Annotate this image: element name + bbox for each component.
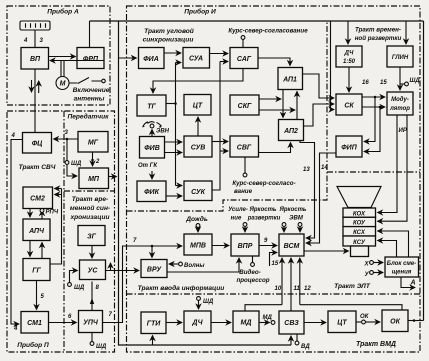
svg-text:СУК: СУК <box>191 189 206 196</box>
svg-text:Тракт СВЧ: Тракт СВЧ <box>19 164 56 171</box>
node RPCh test point <box>40 209 44 213</box>
svg-text:МГ: МГ <box>88 140 99 147</box>
CRT neck <box>351 246 369 257</box>
svg-text:СВЗ: СВЗ <box>284 320 299 327</box>
svg-text:СК: СК <box>344 103 354 110</box>
svg-text:ВП: ВП <box>30 56 41 63</box>
block VPR <box>231 234 259 256</box>
wire trunk into FIA <box>119 57 137 59</box>
wire modulator to KOX IR <box>378 115 398 213</box>
wire US to VRU <box>106 270 140 272</box>
label Pribor A <box>43 7 84 15</box>
svg-text:Видео-: Видео- <box>239 269 260 276</box>
wire bus drop to GLIN <box>405 21 407 44</box>
svg-text:ВРУ: ВРУ <box>147 267 162 274</box>
node ShD test point US <box>68 283 72 287</box>
coil KSU <box>343 236 376 246</box>
wire blok to KSU <box>378 241 397 258</box>
svg-text:М: М <box>60 81 66 88</box>
block FIK <box>137 181 166 202</box>
wire MD to test point <box>259 322 270 324</box>
svg-text:Яркость: Яркость <box>279 207 307 213</box>
svg-text:Тракт вре-: Тракт вре- <box>72 196 108 203</box>
svg-text:Прибор И: Прибор И <box>184 8 216 16</box>
svg-text:ЭВМ: ЭВМ <box>289 216 304 222</box>
svg-text:Прибор А: Прибор А <box>47 8 79 16</box>
svg-text:КОУ: КОУ <box>353 221 366 227</box>
wire riser 220 into SVG <box>220 150 228 152</box>
wire top bus <box>90 20 424 22</box>
wire SM1 to UPCh pin 6 <box>49 322 77 324</box>
wire MG down to MP pin 2 <box>92 152 94 166</box>
svg-text:ШД: ШД <box>96 344 107 350</box>
wire gain input to VPR <box>243 223 247 227</box>
wire CT2 to OK via test point <box>356 321 361 323</box>
svg-text:15: 15 <box>272 261 279 267</box>
wire MD feedback into VSM pin 10 <box>245 305 282 311</box>
block Modulator <box>387 92 413 115</box>
svg-text:ФИП: ФИП <box>341 145 358 152</box>
svg-text:Прибор П: Прибор П <box>17 341 49 349</box>
svg-text:ЭВН: ЭВН <box>156 129 170 135</box>
svg-text:Яркость: Яркость <box>249 207 277 213</box>
block SVZ <box>279 311 304 334</box>
svg-text:ШД: ШД <box>203 299 214 305</box>
svg-text:АП2: АП2 <box>283 128 298 135</box>
label Peredatchik <box>66 112 110 120</box>
node kurs-sever input circle <box>241 36 245 40</box>
svg-text:Тракт ввода информации: Тракт ввода информации <box>138 284 225 292</box>
svg-text:ОК: ОК <box>360 314 370 320</box>
wire OK feedback into VSM pin 12 <box>300 305 402 310</box>
block ZG <box>78 226 105 246</box>
svg-text:ной развертки: ной развертки <box>355 35 402 42</box>
wire trunk up into GTI <box>152 336 154 346</box>
wire VPR videoprocessor stub <box>252 256 254 263</box>
wire VPR to VSM pin 9 <box>259 245 277 247</box>
wire SK taps down to FIP <box>374 96 377 99</box>
wire brightness EVM input to VSM <box>298 223 302 227</box>
coil KOX <box>343 208 376 217</box>
svg-text:МД: МД <box>241 320 252 327</box>
svg-text:синхронизации: синхронизации <box>143 37 194 44</box>
wire SVZ VD stub <box>296 334 298 341</box>
svg-text:хронизации: хронизации <box>69 214 109 221</box>
wire double drop to motor M <box>61 61 64 77</box>
block VRU <box>141 260 167 278</box>
svg-text:Моду-: Моду- <box>391 97 409 103</box>
wire UPCh out pin 7 to MPV and VRU <box>103 246 183 323</box>
block SM1 <box>21 312 49 334</box>
wire AP2 to SK <box>304 104 335 126</box>
wire APCh GG pair <box>29 241 31 257</box>
svg-text:4: 4 <box>13 326 18 332</box>
wire waves input to VRU <box>179 262 183 266</box>
wire FIA to SUA <box>164 52 181 54</box>
wire UPCh US link pin 8 <box>91 282 93 311</box>
block FC <box>23 133 52 154</box>
wire stub up from US line <box>110 263 112 271</box>
svg-text:менной син-: менной син- <box>70 204 110 212</box>
block SKG <box>230 95 259 115</box>
block MP <box>79 168 109 189</box>
wire Y input <box>370 271 374 275</box>
svg-text:СМ2: СМ2 <box>30 196 45 203</box>
block FRP <box>77 48 104 69</box>
svg-text:РПЧ: РПЧ <box>46 210 59 216</box>
wire blok to KSX <box>378 231 409 257</box>
svg-text:ОК: ОК <box>390 319 400 326</box>
svg-text:МП: МП <box>88 176 100 183</box>
svg-text:ШД: ШД <box>71 161 82 167</box>
svg-text:Дождь: Дождь <box>185 215 208 223</box>
svg-text:лятор: лятор <box>389 106 410 112</box>
svg-text:МД: МД <box>263 315 273 321</box>
wire FRP up to top bus <box>89 21 91 48</box>
svg-text:ДЧ: ДЧ <box>344 51 354 57</box>
svg-text:УПЧ: УПЧ <box>83 320 99 327</box>
wire FIP to VSM pin 14 <box>306 153 336 243</box>
svg-text:щения: щения <box>392 270 412 276</box>
wire riser into SUV <box>165 141 183 143</box>
wire bus drop to SK <box>331 21 335 110</box>
svg-text:ние: ние <box>231 216 242 222</box>
wire SUK to riser 220 <box>212 62 220 191</box>
block CT2 <box>328 311 356 333</box>
wire right edge down <box>423 21 425 321</box>
svg-text:Передатчик: Передатчик <box>67 113 109 121</box>
switch antenna on <box>69 78 102 84</box>
svg-text:антенны: антенны <box>74 96 105 103</box>
block GTI <box>141 312 166 334</box>
svg-text:СМ1: СМ1 <box>27 320 42 327</box>
svg-text:От ГК: От ГК <box>138 163 158 169</box>
svg-text:ВПР: ВПР <box>238 243 253 250</box>
svg-text:Курс-север-согласование: Курс-север-согласование <box>228 28 308 35</box>
wire ZG to US <box>91 246 93 259</box>
svg-text:ДЧ: ДЧ <box>191 320 203 327</box>
svg-text:Усиле-: Усиле- <box>228 207 248 213</box>
svg-text:ЦТ: ЦТ <box>193 103 203 110</box>
svg-text:ШД: ШД <box>410 78 421 84</box>
svg-text:процессор: процессор <box>236 277 269 284</box>
antenna symbol <box>20 21 50 30</box>
svg-text:АП1: АП1 <box>282 77 297 84</box>
svg-text:ВД: ВД <box>301 344 310 350</box>
wire FIV to SUV <box>165 152 183 154</box>
wire VSM to CRT neck <box>304 250 349 252</box>
svg-text:14: 14 <box>321 165 328 171</box>
wire riser 220 into SAG <box>220 61 228 63</box>
block CT <box>184 95 211 116</box>
wire AP1 AP2 link pair <box>282 90 284 118</box>
wire VP to FRP double <box>49 56 76 58</box>
block MG <box>78 132 108 153</box>
node MG junction <box>66 138 69 141</box>
block OK <box>382 310 408 332</box>
svg-text:ШД: ШД <box>74 285 85 291</box>
svg-text:ВСМ: ВСМ <box>284 243 300 250</box>
svg-text:15: 15 <box>380 80 387 86</box>
svg-text:ЦТ: ЦТ <box>337 320 347 327</box>
node ShD test point GLIN <box>400 83 405 85</box>
svg-text:2: 2 <box>95 159 100 165</box>
wire central riser <box>175 63 177 186</box>
block US <box>80 260 106 280</box>
enclosure Pribor A dash-dot border <box>7 6 110 105</box>
wire MG to FC <box>54 138 79 140</box>
svg-text:ФРП: ФРП <box>83 56 99 63</box>
wire GG to SM1 pin 5 <box>36 281 38 310</box>
wire AP1 to SK <box>303 74 335 98</box>
wire DCh to SK pin 16 <box>348 67 350 92</box>
wire blok to A <box>401 277 415 288</box>
wire DCh2 to MD <box>211 322 231 324</box>
wire MG junction to MP via ShD <box>67 139 77 176</box>
svg-text:СУВ: СУВ <box>191 145 206 152</box>
wire modulator to KOU <box>378 115 408 221</box>
svg-text:ИР: ИР <box>399 128 408 134</box>
wire ShD to US <box>70 271 78 283</box>
wire SVG test circle <box>244 157 246 173</box>
block FIP <box>336 136 362 157</box>
block AP1 <box>278 68 303 90</box>
wire left trunk and bottom trunk <box>119 21 292 345</box>
wire GG up to SM2 taps <box>50 189 62 265</box>
block TG <box>137 95 166 116</box>
wire SAG feedback to TG <box>153 69 243 94</box>
block VSM <box>279 234 304 256</box>
wire SAG to AP1 <box>258 58 290 66</box>
svg-text:Включение: Включение <box>73 87 110 94</box>
block VP <box>21 48 49 70</box>
block GG <box>23 259 50 281</box>
wire SUV to SVG <box>212 141 228 143</box>
block AP2 <box>279 120 304 141</box>
wire SVG to AP2 <box>259 143 291 153</box>
wire 15 into VSM <box>270 253 278 267</box>
block DCh 1:50 <box>336 46 362 67</box>
wire bus drop to DCh <box>347 21 349 44</box>
svg-text:Тракт времен-: Тракт времен- <box>355 27 401 34</box>
wire GLIN to modulator pin 15 <box>399 67 401 90</box>
svg-text:СУА: СУА <box>189 56 203 63</box>
svg-text:Тракт ВМД: Тракт ВМД <box>356 341 396 348</box>
node ShD test point UPCh <box>90 342 94 346</box>
svg-text:Блок сме-: Блок сме- <box>387 261 416 267</box>
label Pribor I <box>177 7 223 15</box>
wire VRU to VPR <box>167 258 239 272</box>
block MD <box>233 311 259 333</box>
divider tract dash-dot internal <box>127 21 421 294</box>
wire AP2 to VSM pin 13 <box>300 141 315 239</box>
block SUK <box>184 181 212 201</box>
svg-text:развертки: развертки <box>247 216 281 222</box>
svg-text:10: 10 <box>275 286 282 292</box>
wire brightness sweep input to VSM <box>282 223 286 227</box>
wire SVZ to CT2 <box>304 322 326 324</box>
svg-text:ФИА: ФИА <box>143 56 159 63</box>
svg-text:1:50: 1:50 <box>343 59 356 65</box>
svg-text:Волны: Волны <box>184 263 205 269</box>
svg-text:4: 4 <box>11 133 16 139</box>
block SVG <box>230 136 259 157</box>
wire SK to modulator pair <box>362 96 385 98</box>
wire FIK to SUK <box>166 195 182 197</box>
svg-text:Тракт угловой: Тракт угловой <box>144 27 194 35</box>
block MPV <box>184 234 212 255</box>
wire Ot GK into FIK <box>151 171 153 179</box>
svg-text:ГТИ: ГТИ <box>147 321 162 328</box>
svg-text:САГ: САГ <box>237 56 252 63</box>
wire TG to central riser <box>166 103 176 105</box>
block Blok smeshcheniya <box>385 257 419 277</box>
svg-text:ФЦ: ФЦ <box>32 141 43 148</box>
svg-text:вание: вание <box>234 188 253 195</box>
svg-text:СВГ: СВГ <box>237 145 252 152</box>
enclosure Peredatchik divider dash-dot <box>64 111 115 352</box>
wire UPCh ShD stub <box>91 333 93 342</box>
wire SUA to SAG <box>210 53 229 55</box>
svg-text:УС: УС <box>88 268 99 275</box>
block GLIN <box>387 46 413 67</box>
wire SKG to link risers <box>259 98 281 100</box>
svg-text:КСУ: КСУ <box>353 240 366 246</box>
block SUV <box>184 136 212 157</box>
wire MP out to trunk <box>109 176 117 178</box>
svg-text:ГГ: ГГ <box>32 268 41 275</box>
coil KOU <box>343 217 376 226</box>
wire GTI to DCh2 <box>166 322 182 324</box>
wire rain input to MPV <box>196 224 200 228</box>
wire SVZ up into VSM pin 11 <box>290 258 292 311</box>
coil KSX <box>343 227 376 236</box>
wire ShD into DCh2 <box>197 297 201 301</box>
wire SUV to CT <box>197 117 199 136</box>
svg-text:ФИВ: ФИВ <box>144 145 160 152</box>
wire MPV to VPR <box>212 245 229 247</box>
svg-text:КСХ: КСХ <box>353 230 366 236</box>
svg-text:КОХ: КОХ <box>353 211 366 217</box>
block SUA <box>183 48 210 69</box>
svg-text:11: 11 <box>294 286 301 292</box>
svg-text:16: 16 <box>362 80 369 86</box>
svg-text:А: А <box>410 280 416 287</box>
block SAG <box>230 48 258 69</box>
svg-text:12: 12 <box>304 286 311 292</box>
motor M circle <box>56 77 69 90</box>
EVN pickoff symbol <box>151 130 153 137</box>
wire SM2 APCh pair <box>29 209 31 218</box>
enclosure Pribor I dash-dot border <box>127 6 421 352</box>
svg-text:ФИК: ФИК <box>144 189 160 196</box>
enclosure Pribor P dash-dot border <box>7 111 115 352</box>
svg-text:СКГ: СКГ <box>238 103 252 110</box>
block APCh <box>23 219 50 241</box>
block FIA <box>139 48 165 69</box>
wire riser into SUA second input <box>176 62 182 64</box>
svg-text:МПВ: МПВ <box>190 243 206 250</box>
block DCh2 <box>184 311 211 333</box>
svg-text:Тракт ЭЛТ: Тракт ЭЛТ <box>334 283 371 290</box>
svg-text:АПЧ: АПЧ <box>28 228 45 235</box>
svg-text:ЗГ: ЗГ <box>87 234 96 241</box>
wire VP down to FC with direction ticks <box>34 69 36 133</box>
svg-text:13: 13 <box>303 167 310 173</box>
svg-text:Курс-север-согласо-: Курс-север-согласо- <box>232 180 295 187</box>
wire X input <box>370 261 374 265</box>
block SM2 <box>23 187 53 209</box>
block FIV <box>140 137 165 159</box>
svg-text:ГЛИН: ГЛИН <box>392 55 409 61</box>
block SK <box>336 94 362 115</box>
wire trunk up into SVZ <box>290 336 292 345</box>
svg-text:ТГ: ТГ <box>147 104 156 111</box>
svg-text:4: 4 <box>23 38 28 44</box>
wire FC to SM1 pin 4 <box>11 140 23 325</box>
CRT funnel <box>337 187 381 208</box>
wire antenna stem <box>34 30 36 48</box>
wire riser into SUK <box>176 185 183 187</box>
wire OK right to edge <box>408 320 424 322</box>
node ShD test point MP <box>65 161 69 165</box>
block UPCh <box>79 311 103 333</box>
